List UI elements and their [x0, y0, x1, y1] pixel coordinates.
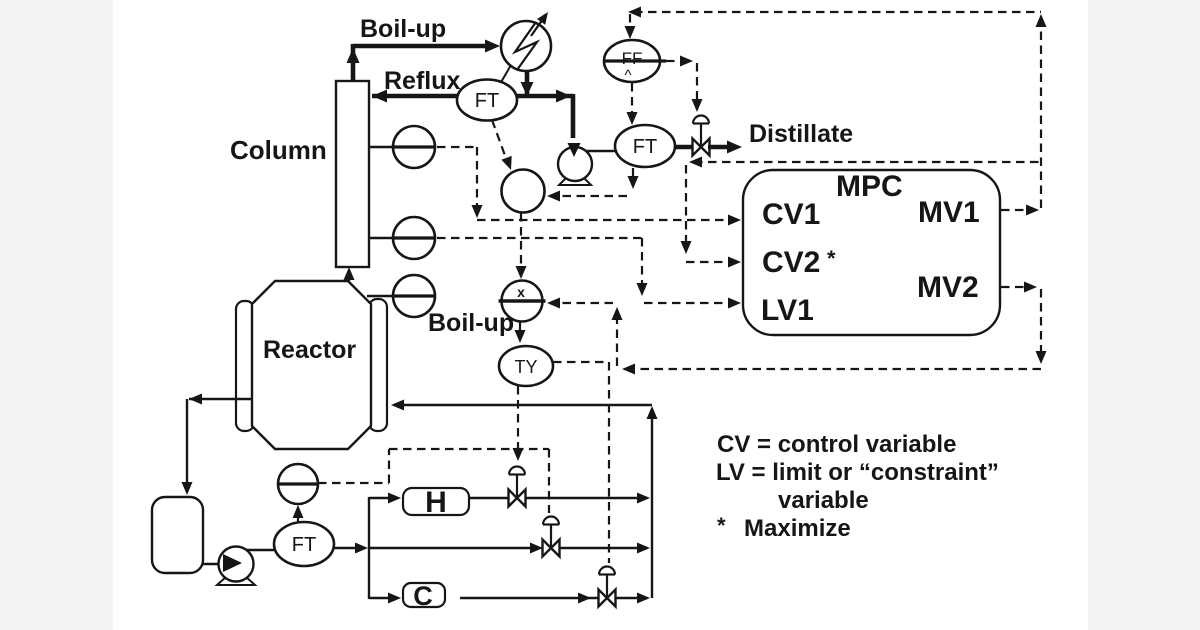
- svg-text:Reflux: Reflux: [384, 67, 461, 95]
- wire pump outlet to FT feed: [247, 549, 275, 551]
- signal FT distillate to quality relay: [547, 168, 639, 202]
- wire FT to valve (thick): [674, 145, 694, 150]
- svg-text:variable: variable: [778, 487, 869, 514]
- right grey margin band: [1088, 0, 1200, 630]
- label legend LV: [716, 459, 999, 486]
- svg-text:CV = control variable: CV = control variable: [717, 431, 956, 458]
- block H heater box: [403, 486, 469, 519]
- left grey margin band: [0, 0, 113, 630]
- signal TY down to valve1 actuator: [513, 386, 524, 461]
- wire reactor to feed tank: [182, 394, 253, 496]
- svg-text:MV1: MV1: [918, 196, 980, 229]
- label CV2 *: [762, 246, 836, 279]
- wire tank to feed pump: [203, 563, 220, 565]
- svg-text:FF: FF: [622, 49, 643, 68]
- label legend maximize: [717, 513, 851, 542]
- wire FT feed to manifold: [334, 543, 368, 554]
- signal S2 to LV1 (dashed): [437, 238, 741, 309]
- signal TY right and down to valve3: [553, 362, 609, 563]
- valve valve1 (H branch): [509, 467, 526, 507]
- label legend variable: [778, 487, 869, 514]
- svg-text:*: *: [717, 513, 726, 538]
- signal top dashed line into FF (from MV1 loop): [625, 7, 1042, 40]
- label MV1: [918, 196, 980, 229]
- valve valve3 (C branch): [599, 567, 616, 607]
- svg-text:MPC: MPC: [836, 170, 903, 203]
- signal S4 to valve2 actuator (dashed): [318, 449, 549, 513]
- svg-text:Reactor: Reactor: [263, 336, 356, 364]
- label Reactor: [263, 336, 356, 364]
- sensor S4 feed sensor: [278, 464, 318, 504]
- sensor S3 lower column sensor: [367, 275, 435, 317]
- wire recycle riser up: [647, 406, 658, 598]
- svg-text:Column: Column: [230, 135, 327, 165]
- pump distillate: [558, 143, 592, 185]
- svg-text:Boil-up: Boil-up: [360, 15, 446, 43]
- svg-text:MV2: MV2: [917, 271, 979, 304]
- label Boil-up (lower): [428, 309, 514, 337]
- label Reflux: [384, 67, 461, 95]
- label CV1: [762, 198, 820, 231]
- sensor S1 top column sensor: [369, 126, 435, 168]
- wire pump outlet to FT distillate: [586, 150, 616, 152]
- block C cooler box: [403, 581, 445, 611]
- wire reflux line (thick): [372, 90, 573, 103]
- relay quality computing circle: [502, 170, 545, 213]
- wire valve1 to recycle riser: [525, 493, 650, 504]
- signal FT reflux to quality relay (dashed diagonal): [492, 120, 512, 170]
- signal quality relay down to X relay: [516, 213, 527, 279]
- pump feed pump: [217, 547, 255, 586]
- wire manifold vertical: [368, 497, 370, 599]
- wire column top to condenser (thick boil-up line): [347, 40, 501, 82]
- transmitter FT reflux: [457, 80, 517, 121]
- svg-text:C: C: [413, 581, 433, 611]
- label legend CV: [717, 431, 956, 458]
- signal MV1 output loop: [1001, 14, 1047, 216]
- signal X relay down to TY: [515, 322, 526, 343]
- signal S1 to CV1 (dashed): [437, 147, 741, 226]
- wire condenser outlet down (thick): [521, 70, 534, 96]
- wire valve2 to recycle riser: [559, 543, 650, 554]
- transmitter FT feed: [274, 522, 334, 566]
- relay TY temperature relay: [499, 346, 553, 386]
- valve valve2 (mid branch): [543, 517, 560, 557]
- wire C box to valve3: [460, 593, 599, 604]
- label MPC: [836, 170, 903, 203]
- wire branch3 to C box: [369, 593, 401, 604]
- svg-text:LV = limit or “constraint”: LV = limit or “constraint”: [716, 459, 999, 486]
- wire valve3 to recycle riser: [615, 593, 650, 604]
- svg-text:FT: FT: [292, 534, 316, 556]
- reactor left flange: [236, 301, 254, 431]
- sensor S2 mid column sensor: [369, 217, 435, 259]
- wire valve to Distillate arrow (thick): [708, 141, 742, 154]
- controller MPC box: [743, 170, 1000, 335]
- svg-text:CV2: CV2: [762, 246, 820, 279]
- label Distillate: [749, 120, 853, 148]
- svg-text:Maximize: Maximize: [744, 515, 851, 542]
- svg-text:Distillate: Distillate: [749, 120, 853, 148]
- signal MV2 output loop: [1001, 282, 1047, 365]
- svg-text:Boil-up: Boil-up: [428, 309, 514, 337]
- wire recycle to reactor: [391, 400, 652, 411]
- signal MV2 loop to X relay: [547, 298, 1041, 375]
- controller FF feedforward: [603, 40, 666, 84]
- label Boil-up (top): [360, 15, 446, 43]
- label Column: [230, 135, 327, 165]
- svg-text:x: x: [517, 284, 525, 300]
- svg-text:TY: TY: [514, 357, 537, 377]
- relay X multiplier: [499, 281, 546, 322]
- reactor vessel body: [252, 281, 371, 449]
- condenser (heat exchanger): [501, 12, 551, 71]
- signal FF right to valve actuator: [666, 56, 703, 113]
- reactor right flange: [369, 299, 387, 431]
- svg-text:CV1: CV1: [762, 198, 820, 231]
- svg-text:*: *: [827, 246, 836, 271]
- column vessel: [336, 81, 369, 267]
- wire branch1 to H box: [369, 493, 401, 504]
- signal FF down to FT distillate: [627, 83, 638, 125]
- wire H box to valve1: [469, 497, 509, 499]
- svg-text:FT: FT: [633, 136, 657, 158]
- wire condenser tail to FT: [500, 65, 511, 84]
- signal valve branch down to CV2: [681, 165, 742, 268]
- svg-text:LV1: LV1: [761, 294, 814, 327]
- signal FT feed up to S4: [293, 505, 304, 522]
- svg-text:^: ^: [624, 67, 631, 84]
- wire branch2 line: [369, 543, 543, 554]
- label MV2: [917, 271, 979, 304]
- svg-text:H: H: [425, 486, 447, 519]
- wire reactor top to column bottom: [344, 267, 355, 281]
- tank feed drum: [152, 497, 203, 573]
- valve distillate control valve: [693, 116, 710, 156]
- signal dashed into valve region from MV1 branch (y=162): [689, 157, 1041, 168]
- wire down to distillate pump (thick): [571, 94, 576, 138]
- transmitter FT distillate: [615, 125, 675, 167]
- svg-text:FT: FT: [475, 90, 499, 112]
- label LV1: [761, 294, 814, 327]
